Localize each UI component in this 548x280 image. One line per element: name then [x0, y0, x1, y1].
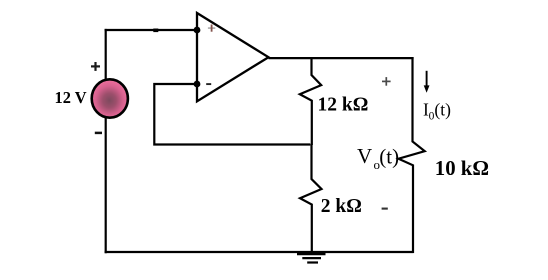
svg-text:(t): (t): [379, 145, 399, 169]
wire bottom rail: [105, 251, 414, 253]
label 12 kOhm value: [318, 95, 369, 116]
wire overlap mark on top wire: [153, 28, 158, 32]
resistor R2 2 kOhm (middle branch lower) with leads: [300, 144, 322, 253]
label I0(t) current: [423, 99, 451, 122]
wire feedback (inverting input left, down, right to middle node): [154, 84, 310, 145]
svg-text:12 V: 12 V: [55, 88, 87, 107]
label + polarity of source: [91, 62, 100, 71]
label - polarity of source: [95, 132, 102, 135]
op-amp U1: [197, 13, 269, 101]
svg-text:12 kΩ: 12 kΩ: [318, 95, 369, 116]
wire top (source + to op-amp non-inverting input): [105, 29, 197, 31]
label 12 V value: [55, 88, 87, 107]
resistor R3 10 kOhm (right branch) with leads: [399, 57, 425, 253]
arrow current direction I0(t): [424, 71, 430, 93]
svg-text:V: V: [357, 144, 372, 168]
svg-text:(t): (t): [434, 99, 451, 119]
label + input marker of op-amp: [208, 25, 215, 32]
ground: [297, 254, 326, 263]
resistor R1 12 kOhm (middle branch upper) with leads: [300, 57, 321, 145]
wire op-amp output to right branch: [269, 57, 414, 59]
node junction dot at inverting input: [194, 81, 201, 88]
label 2 kOhm value: [321, 196, 362, 217]
label + of output voltage: [382, 77, 391, 86]
label Vo(t) output voltage: [357, 144, 399, 172]
label - of output voltage: [382, 208, 388, 210]
node junction dot at non-inverting input: [194, 27, 201, 34]
wire left lower (source bottom to bottom rail): [105, 117, 107, 254]
wire left upper (corner down to source top): [105, 29, 107, 81]
svg-text:2 kΩ: 2 kΩ: [321, 196, 362, 217]
svg-text:10 kΩ: 10 kΩ: [435, 157, 489, 180]
label 10 kOhm value: [435, 157, 489, 180]
voltage source V1 12 V: [92, 79, 128, 117]
label - input marker of op-amp: [206, 83, 211, 85]
